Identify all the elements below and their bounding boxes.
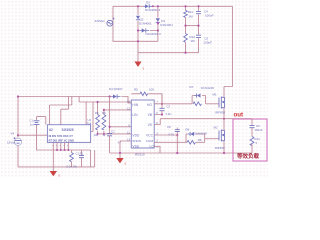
- ground 0 under SG3525: [50, 150, 61, 178]
- resistor column R11 R12: [185, 6, 187, 52]
- IC U2 SG3525 box: [47, 125, 90, 143]
- svg-text:R11: R11: [188, 10, 194, 14]
- junction top bus / mid branch: [157, 5, 159, 7]
- node dot control/VDD riser: [109, 95, 111, 97]
- IC U5 IR2110 box: [131, 100, 154, 148]
- svg-text:3.3U: 3.3U: [166, 112, 172, 116]
- wire VDD line and riser: [110, 97, 132, 134]
- svg-text:D1N4001: D1N4001: [160, 23, 173, 27]
- svg-text:C8: C8: [167, 125, 171, 129]
- wire LIN line: [104, 109, 131, 111]
- svg-text:10: 10: [127, 100, 130, 104]
- dc source V4 15Vdc: [7, 132, 22, 146]
- svg-text:U2: U2: [49, 128, 53, 132]
- wire V4 bottom return: [18, 145, 53, 167]
- svg-text:D7: D7: [190, 85, 194, 89]
- junction top bus / R11 column: [184, 5, 186, 7]
- wire weave riser outA: [91, 102, 93, 132]
- resistor R5 100: [134, 87, 154, 95]
- svg-text:1: 1: [156, 145, 158, 149]
- wire SG3525 bottom pin stubs: [53, 142, 68, 150]
- svg-text:1M: 1M: [188, 14, 193, 18]
- svg-text:D1N4148: D1N4148: [201, 86, 214, 90]
- diode D3 on top bus: [144, 4, 153, 9]
- junction top bus / left branch: [137, 5, 139, 7]
- svg-text:C1 R1: C1 R1: [76, 152, 84, 156]
- wire bottom common rail: [110, 152, 252, 154]
- gate network M2: D8 + R8: [186, 132, 219, 144]
- svg-text:5: 5: [256, 141, 258, 145]
- junction mid tap / R column: [184, 25, 186, 27]
- wire LO stub down: [154, 146, 160, 153]
- junction AC loop bottom / left branch: [137, 40, 139, 42]
- wire VB stub + bootstrap cap C3: [154, 94, 171, 116]
- junction under-IC rail pin3: [60, 149, 62, 151]
- svg-text:C2: C2: [111, 129, 115, 133]
- svg-text:IRF830: IRF830: [215, 110, 225, 114]
- junction mid branch / D2 cathode: [157, 22, 159, 24]
- mosfet M1 IRF830: [213, 87, 226, 119]
- svg-text:C1: C1: [30, 119, 34, 123]
- capacitor column C4 C5: [198, 6, 200, 52]
- svg-text:0: 0: [143, 67, 145, 71]
- svg-text:220Vac: 220Vac: [95, 19, 106, 23]
- wire bridge middle horizontal: [138, 30, 158, 32]
- svg-text:D8: D8: [185, 127, 189, 131]
- junction top bus / C4 column: [197, 5, 199, 7]
- junction VDD line / riser: [109, 126, 111, 128]
- svg-text:100: 100: [149, 87, 154, 91]
- mosfet M2 IRF830: [214, 119, 225, 153]
- ground 0 at rectifier bottom: [134, 53, 144, 71]
- wire soft start line: [37, 117, 48, 150]
- wire COM stub to gate network: [154, 141, 186, 143]
- svg-text:0.1u 10k: 0.1u 10k: [67, 165, 78, 169]
- svg-text:C3: C3: [167, 105, 171, 109]
- wire midpoint out line: [160, 118, 252, 120]
- svg-text:15Vdc: 15Vdc: [7, 141, 16, 145]
- svg-text:R6: R6: [95, 111, 99, 115]
- svg-text:0: 0: [59, 174, 61, 178]
- node dot weave corner: [17, 95, 19, 97]
- wire R5 row above IR2110: [131, 94, 162, 105]
- svg-text:M1: M1: [213, 93, 217, 97]
- wire V4 to SG3525 VCC: [18, 134, 47, 136]
- svg-text:LIN: LIN: [132, 113, 138, 117]
- junction mid branch / bridge middle wire: [157, 29, 159, 31]
- junction left branch / bridge middle wire: [137, 29, 139, 31]
- svg-text:HO: HO: [147, 103, 152, 107]
- under-IC rail: [47, 149, 90, 151]
- svg-text:IRF830: IRF830: [215, 146, 225, 150]
- svg-text:D3: D3: [146, 0, 150, 4]
- junction under-IC rail pin4: [64, 149, 66, 151]
- svg-text:SHDN: SHDN: [132, 139, 141, 143]
- resistor R13 load: [250, 137, 260, 154]
- svg-text:HIN: HIN: [132, 103, 138, 107]
- junction under-IC rail pin2: [56, 149, 58, 151]
- svg-text:V4: V4: [11, 132, 15, 136]
- svg-text:R8: R8: [198, 138, 202, 142]
- gate network M1: D7 + R7: [192, 94, 219, 106]
- wire SHDN line: [98, 133, 132, 135]
- wire weave HIN feed: [79, 97, 131, 103]
- svg-text:M2: M2: [214, 125, 218, 129]
- svg-text:100uF: 100uF: [205, 14, 214, 18]
- junction SHDN line / R6 bottom: [97, 133, 99, 135]
- diode FR307 on control line: [112, 94, 122, 99]
- resistor R12: [183, 34, 188, 43]
- wire load chain top: [251, 119, 253, 125]
- svg-text:D1N4001 3: D1N4001 3: [145, 8, 161, 12]
- wire main control line to HIN: [18, 97, 131, 104]
- svg-text:VDD: VDD: [132, 134, 140, 138]
- wire VS stub to midpoint: [154, 119, 160, 125]
- svg-text:VSS: VSS: [132, 144, 139, 148]
- junction bottom bus / R column: [184, 52, 186, 54]
- capacitor C4: [196, 11, 202, 15]
- junction midpoint / M1 source M2 drain: [223, 118, 225, 120]
- svg-text:1M: 1M: [191, 39, 196, 43]
- svg-text:100uF: 100uF: [255, 128, 263, 132]
- svg-text:R9: R9: [102, 111, 106, 115]
- svg-text:13: 13: [127, 138, 130, 142]
- wire IC top pin stub: [85, 102, 87, 125]
- wire rectifier bottom bus: [138, 52, 199, 54]
- resistor R6: [96, 101, 100, 134]
- svg-text:SG3525: SG3525: [62, 128, 74, 132]
- wire HO gate line: [154, 103, 192, 105]
- capacitor C6 load: [250, 124, 263, 137]
- svg-text:VCC: VCC: [146, 134, 154, 138]
- svg-text:0: 0: [125, 162, 127, 166]
- svg-text:COM: COM: [146, 139, 154, 143]
- wire weave level4: [61, 97, 69, 125]
- wire AC source loop: [113, 6, 158, 41]
- svg-text:D1N4001: D1N4001: [139, 21, 152, 25]
- wire VCC stub + cap C8: [154, 125, 180, 153]
- resistor R11: [183, 10, 188, 17]
- capacitor CT under IC: [79, 150, 84, 165]
- capacitor C2 decoupling: [107, 129, 115, 153]
- svg-text:等效负载: 等效负载: [236, 152, 260, 160]
- load box: [233, 119, 267, 161]
- junction rail / M2 source: [223, 152, 225, 154]
- wire under components tie: [53, 150, 94, 167]
- capacitor C1 soft start: [30, 119, 40, 127]
- svg-text:4.7U: 4.7U: [168, 133, 174, 137]
- wire left rail down from weave corner: [17, 97, 19, 138]
- svg-text:D1N4148: D1N4148: [194, 131, 207, 135]
- junction top bus / D3 cathode: [152, 5, 154, 7]
- diode D2 vertical on mid branch: [156, 18, 161, 24]
- wire right DC+ bus: [224, 6, 232, 86]
- svg-text:NI INV SYN OSC CT: NI INV SYN OSC CT: [49, 134, 74, 138]
- resistor R9: [102, 109, 106, 134]
- junction under-IC rail pin5: [67, 149, 69, 151]
- AC source V1 220Vac: [95, 18, 115, 27]
- svg-text:12: 12: [127, 107, 130, 111]
- svg-text:D1N4001 3: D1N4001 3: [146, 32, 162, 36]
- svg-text:TL4: TL4: [87, 121, 92, 125]
- junction SHDN line / R9 bottom: [103, 133, 105, 135]
- diode D1 vertical on left branch: [136, 15, 141, 21]
- wire mid tap tie: [186, 25, 199, 27]
- junction rail / ground stem: [119, 152, 121, 154]
- resistor RT under IC: [70, 150, 74, 165]
- svg-text:100uF: 100uF: [204, 41, 213, 45]
- wire weave level3: [50, 97, 72, 125]
- wire bridge left vertical: [137, 6, 139, 52]
- diode D5 on bridge middle wire: [140, 28, 150, 33]
- wire VSS line: [120, 141, 131, 153]
- wire bridge mid vertical: [157, 6, 159, 41]
- svg-text:out: out: [234, 111, 244, 118]
- ground 0 at bottom rail: [116, 153, 126, 166]
- capacitor C5: [196, 35, 202, 39]
- junction mid tap / C column: [197, 25, 199, 27]
- node dot V4 top: [17, 134, 19, 136]
- svg-text:1u: 1u: [30, 123, 33, 127]
- wire top bus: [113, 5, 232, 7]
- svg-text:D4 FR307: D4 FR307: [109, 87, 123, 91]
- svg-text:RT DIS VRF VC GND: RT DIS VRF VC GND: [49, 138, 74, 142]
- svg-text:LO: LO: [150, 144, 155, 148]
- svg-text:R5: R5: [134, 87, 138, 91]
- junction rail / C8 column: [176, 152, 178, 154]
